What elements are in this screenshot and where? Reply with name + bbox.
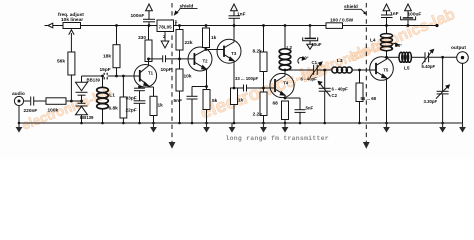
svg-text:1k: 1k xyxy=(211,35,217,41)
resistor 8.2k xyxy=(260,52,267,72)
svg-text:56 ... 68: 56 ... 68 xyxy=(361,96,377,101)
capacitor 100nF xyxy=(148,5,150,19)
shield dashed line right xyxy=(365,3,367,142)
ground bus xyxy=(19,122,463,124)
svg-text:90°: 90° xyxy=(396,43,403,48)
resistor 100/0.5W xyxy=(326,23,343,29)
T4 emitter network: resistor 68, capacitor 5nF xyxy=(282,101,289,120)
svg-text:100uF: 100uF xyxy=(408,11,422,17)
shield ground arrows xyxy=(169,142,370,149)
input terminal arrow xyxy=(48,23,53,28)
output line: L5, C3 xyxy=(387,56,399,58)
svg-text:L5: L5 xyxy=(404,66,410,72)
transistor T3 xyxy=(217,39,241,63)
svg-text:6 - 40pF: 6 - 40pF xyxy=(301,76,318,81)
svg-text:5nF: 5nF xyxy=(174,98,183,104)
trimmer C2 xyxy=(324,70,326,88)
watermark electronics-lab fragments xyxy=(20,85,114,133)
transistor T2 xyxy=(188,47,212,71)
svg-text:330: 330 xyxy=(138,35,146,41)
svg-text:22pF: 22pF xyxy=(126,107,137,113)
resistor 2.2k xyxy=(260,92,267,116)
capacitor 1nF (left) xyxy=(233,5,235,16)
resistor 18k xyxy=(113,45,120,68)
svg-text:10pF: 10pF xyxy=(161,67,172,73)
capacitor 1nF (right) xyxy=(386,5,388,16)
svg-text:BB139: BB139 xyxy=(80,115,94,120)
svg-text:output: output xyxy=(451,45,466,51)
svg-text:C2: C2 xyxy=(332,93,338,98)
capacitor 33...100pF xyxy=(234,87,244,89)
svg-text:T5: T5 xyxy=(383,68,389,73)
inductor L1 xyxy=(102,76,104,88)
svg-text:100nF: 100nF xyxy=(131,13,145,19)
inductor L3 xyxy=(332,67,352,73)
svg-text:T2: T2 xyxy=(203,59,209,64)
capacitor 220nF xyxy=(30,97,32,106)
transistor T5 xyxy=(370,57,394,81)
svg-text:1nF: 1nF xyxy=(237,11,246,17)
resistor 6.8k xyxy=(120,97,127,118)
voltage regulator 78L05 xyxy=(175,22,177,26)
svg-text:33 ... 100pF: 33 ... 100pF xyxy=(235,76,259,81)
svg-text:5k: 5k xyxy=(212,98,218,104)
svg-text:33pF: 33pF xyxy=(126,95,137,101)
90 deg arc mark (L4) xyxy=(391,44,397,50)
svg-text:6.40pF: 6.40pF xyxy=(422,64,436,69)
svg-text:10k linear: 10k linear xyxy=(61,17,83,23)
transistor T1 xyxy=(134,65,157,88)
resistor 330 xyxy=(145,40,152,62)
transistor T4 xyxy=(270,73,294,97)
resistor 1k (T3 emitter) xyxy=(231,88,238,105)
svg-text:10uF: 10uF xyxy=(312,42,322,47)
T2 emitter network: capacitor 5nF, resistor 5k xyxy=(206,71,208,90)
svg-text:L4: L4 xyxy=(370,38,376,44)
svg-text:T1: T1 xyxy=(148,71,154,76)
svg-text:long range fm transmitter: long range fm transmitter xyxy=(226,135,329,142)
svg-text:8.2k: 8.2k xyxy=(253,49,263,55)
wire T2 collector to T3 base xyxy=(206,49,224,51)
svg-text:1k: 1k xyxy=(158,103,164,109)
inductor L4 xyxy=(386,26,388,35)
ground arrows below bus xyxy=(16,123,466,133)
shield label left xyxy=(174,3,198,16)
capacitor 100uF electrolytic xyxy=(407,5,409,18)
resistor 22k xyxy=(176,30,183,51)
90 deg arc mark (C1) xyxy=(298,58,304,64)
signal line T4 collector to T5 base xyxy=(285,69,314,71)
resistor 1k (T2 collector) xyxy=(203,28,210,48)
shield dashed line left xyxy=(171,3,173,142)
svg-text:90°: 90° xyxy=(302,56,309,61)
audio connector xyxy=(14,96,23,105)
svg-text:L3: L3 xyxy=(337,58,343,64)
capacitor 10pF xyxy=(149,58,163,60)
resistor 56...68 xyxy=(356,83,363,102)
svg-text:56k: 56k xyxy=(57,59,65,65)
capacitor 15pF xyxy=(104,73,105,80)
svg-text:audio: audio xyxy=(12,91,25,97)
inductor L2 xyxy=(284,26,286,50)
svg-text:freq. adjust: freq. adjust xyxy=(58,12,84,18)
output connector xyxy=(457,52,469,64)
varicap BB139 bottom xyxy=(78,102,86,104)
svg-text:2.2k: 2.2k xyxy=(253,112,263,118)
resistor 100k xyxy=(46,98,66,105)
trimmer 3-30pF xyxy=(442,57,444,91)
svg-text:L1: L1 xyxy=(109,93,115,99)
svg-text:15pF: 15pF xyxy=(100,67,111,73)
svg-text:T4: T4 xyxy=(283,80,289,85)
svg-text:18k: 18k xyxy=(103,54,111,60)
potentiometer 10k linear xyxy=(63,23,81,29)
svg-text:5nF: 5nF xyxy=(306,105,314,110)
svg-text:1nF: 1nF xyxy=(390,11,399,17)
resistor 10k xyxy=(176,69,183,91)
resistor 56k xyxy=(68,52,75,75)
svg-text:BB139: BB139 xyxy=(87,77,101,82)
audio ground drop xyxy=(18,106,20,123)
svg-text:100 / 0.5W: 100 / 0.5W xyxy=(330,17,354,23)
trimmer C1 xyxy=(313,65,315,75)
supply rail xyxy=(53,25,63,27)
svg-text:C1: C1 xyxy=(312,60,318,65)
svg-text:220nF: 220nF xyxy=(24,108,38,114)
svg-text:1k: 1k xyxy=(238,98,244,104)
emitter network T1: capacitors 33pF 22pF, resistor 1k xyxy=(140,86,154,88)
trimmer C3 xyxy=(424,52,426,62)
svg-text:100k: 100k xyxy=(48,107,59,113)
svg-text:10k: 10k xyxy=(184,74,192,80)
wire varicap to L1 node xyxy=(82,75,140,77)
svg-text:68: 68 xyxy=(273,100,279,106)
svg-text:T3: T3 xyxy=(231,51,237,56)
svg-text:3.30pF: 3.30pF xyxy=(424,99,438,104)
varicap BB139 top xyxy=(81,76,83,82)
svg-text:78L05: 78L05 xyxy=(159,25,172,30)
svg-text:L2: L2 xyxy=(287,45,293,51)
capacitor 10uF electrolytic xyxy=(309,26,311,39)
svg-text:6.8k: 6.8k xyxy=(109,105,119,111)
svg-text:22k: 22k xyxy=(185,40,193,46)
svg-text:6 - 40pF: 6 - 40pF xyxy=(332,86,349,91)
shield label right xyxy=(344,4,367,15)
